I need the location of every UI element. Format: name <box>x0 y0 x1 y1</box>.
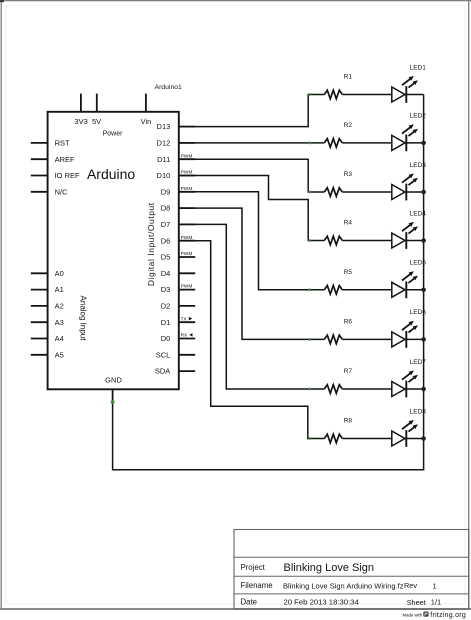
svg-text:R1: R1 <box>344 74 353 81</box>
LED5 <box>392 271 424 298</box>
svg-text:1: 1 <box>433 581 437 590</box>
LED3 <box>392 173 424 200</box>
svg-text:Power: Power <box>103 131 124 138</box>
pin D4 <box>179 272 195 274</box>
wire R8 to LED8 <box>342 438 392 440</box>
wire D7 to R7 <box>179 224 324 389</box>
svg-text:D4: D4 <box>161 269 171 278</box>
svg-text:A3: A3 <box>55 318 64 327</box>
wire R4 to LED4 <box>342 240 392 242</box>
node R6 wire end <box>308 338 311 341</box>
resistor R2 <box>324 139 342 148</box>
page frame border bottom <box>0 608 471 610</box>
node GND wire junction <box>111 400 115 404</box>
svg-text:Blinking Love Sign: Blinking Love Sign <box>284 562 375 574</box>
svg-text:R3: R3 <box>344 171 353 178</box>
svg-text:Date: Date <box>241 597 257 606</box>
svg-text:R2: R2 <box>344 122 353 129</box>
pin D10 PWM <box>179 175 195 177</box>
pin 5V <box>96 94 98 112</box>
svg-text:Analog Input: Analog Input <box>79 296 88 342</box>
LED7 <box>392 370 424 397</box>
resistor R5 <box>324 286 342 295</box>
node R1 wire end <box>308 93 311 96</box>
svg-text:RX: RX <box>181 333 188 339</box>
wire R6 to LED6 <box>342 338 392 340</box>
pin A0 <box>31 272 48 274</box>
svg-text:Blinking Love Sign Arduino Wir: Blinking Love Sign Arduino Wiring.fz <box>283 581 404 590</box>
junction LED7 cathode on bus <box>421 387 426 392</box>
top frame edge dark mark <box>0 0 4 2</box>
pin D12 <box>179 142 195 144</box>
svg-text:Digital Input/Output: Digital Input/Output <box>146 202 156 286</box>
svg-text:1/1: 1/1 <box>431 598 441 607</box>
svg-text:D5: D5 <box>161 253 171 262</box>
node R2 wire end <box>308 141 311 144</box>
svg-text:D0: D0 <box>161 334 171 343</box>
wire D8 to R6 <box>179 208 324 339</box>
pin D2 <box>179 305 195 307</box>
junction LED4 cathode on bus <box>421 238 426 243</box>
svg-text:R7: R7 <box>344 368 353 375</box>
wire R1 to LED1 <box>342 94 392 96</box>
svg-text:A4: A4 <box>55 334 64 343</box>
svg-text:LED8: LED8 <box>410 408 427 415</box>
svg-text:D11: D11 <box>157 155 170 164</box>
svg-text:PWM: PWM <box>181 153 193 159</box>
svg-text:LED7: LED7 <box>410 359 427 366</box>
svg-text:LED2: LED2 <box>410 113 427 120</box>
svg-text:PWM: PWM <box>181 251 193 257</box>
svg-text:D10: D10 <box>157 171 171 180</box>
wire R5 to LED5 <box>342 289 392 291</box>
pin A3 <box>31 321 48 323</box>
pin D7 <box>179 223 195 225</box>
svg-text:A2: A2 <box>55 302 64 311</box>
node R5 wire end <box>308 288 311 291</box>
svg-text:AREF: AREF <box>55 155 75 164</box>
pin A4 <box>31 338 48 340</box>
svg-text:LED3: LED3 <box>410 162 427 169</box>
pin SDA <box>179 370 195 372</box>
resistor R7 <box>324 385 342 394</box>
svg-text:D1: D1 <box>161 318 171 327</box>
svg-text:N/C: N/C <box>55 187 69 196</box>
node R8 wire end <box>308 437 311 440</box>
svg-text:IO REF: IO REF <box>55 171 80 180</box>
svg-text:PWM: PWM <box>181 186 193 192</box>
wire D12 to R2 <box>179 142 324 144</box>
page frame border left <box>0 0 2 610</box>
pin GND bottom <box>112 389 114 402</box>
svg-text:Vin: Vin <box>141 117 152 126</box>
resistor R4 <box>324 236 342 245</box>
pin A2 <box>31 305 48 307</box>
svg-text:D2: D2 <box>161 302 171 311</box>
resistor R3 <box>324 188 342 197</box>
pin D13 <box>179 126 195 128</box>
svg-text:D9: D9 <box>161 187 171 196</box>
title block frame <box>234 530 469 610</box>
svg-text:Filename: Filename <box>241 581 273 590</box>
node R3 wire end <box>308 191 311 194</box>
junction LED8 cathode on bus <box>421 436 426 441</box>
svg-text:A5: A5 <box>55 350 64 359</box>
svg-text:Arduino1: Arduino1 <box>155 84 182 91</box>
svg-text:fritzing.org: fritzing.org <box>430 612 466 619</box>
pin SCL <box>179 354 195 356</box>
svg-text:Made with: Made with <box>403 612 423 617</box>
svg-text:R4: R4 <box>344 220 353 227</box>
svg-text:SDA: SDA <box>155 367 170 376</box>
pin D3 PWM <box>179 289 195 291</box>
wire R2 to LED2 <box>342 142 392 144</box>
svg-text:R8: R8 <box>344 418 353 425</box>
LED8 <box>392 420 424 447</box>
wire R7 to LED7 <box>342 388 392 390</box>
Arduino U1 body <box>48 112 179 390</box>
pin A1 <box>31 289 48 291</box>
svg-text:20 Feb 2013 18:30:34: 20 Feb 2013 18:30:34 <box>284 598 360 607</box>
pin D1 TX <box>179 321 195 323</box>
svg-text:Sheet: Sheet <box>407 598 426 607</box>
wire D11 to R3 <box>179 159 324 192</box>
svg-text:3V3: 3V3 <box>74 117 87 126</box>
svg-text:A0: A0 <box>55 269 64 278</box>
svg-text:Rev: Rev <box>404 581 417 590</box>
svg-text:TX: TX <box>181 316 188 322</box>
svg-text:LED4: LED4 <box>410 210 427 217</box>
junction LED5 cathode on bus <box>421 288 426 293</box>
pin Vin <box>145 94 147 112</box>
node R7 wire end <box>308 388 311 391</box>
LED2 <box>392 124 424 151</box>
right pins D13..SDA <box>155 122 195 376</box>
pin RST <box>31 142 48 144</box>
pin IO REF <box>31 175 48 177</box>
svg-text:D13: D13 <box>157 122 171 131</box>
svg-text:SCL: SCL <box>156 350 171 359</box>
wire D10 to R4 <box>179 176 324 241</box>
svg-text:R5: R5 <box>344 269 353 276</box>
junction LED6 cathode on bus <box>421 337 426 342</box>
svg-text:D6: D6 <box>161 236 171 245</box>
pin A5 <box>31 354 48 356</box>
left pins group: RST AREF IOREF NC A0-A5 <box>31 139 80 360</box>
pin D9 PWM <box>179 191 195 193</box>
resistor R6 <box>324 335 342 344</box>
wire R3 to LED3 <box>342 191 392 193</box>
svg-text:PWM: PWM <box>181 170 193 176</box>
svg-text:D7: D7 <box>161 220 171 229</box>
LED4 <box>392 222 424 249</box>
wire D9 to R5 <box>179 192 324 290</box>
svg-text:PWM: PWM <box>181 235 193 241</box>
LED1 <box>392 76 424 103</box>
pin D0 RX <box>179 338 195 340</box>
svg-text:D3: D3 <box>161 285 171 294</box>
pin N/C <box>31 191 48 193</box>
svg-text:LED6: LED6 <box>410 309 427 316</box>
pin D6 PWM <box>179 240 195 242</box>
svg-text:Project: Project <box>241 563 266 572</box>
page frame border top <box>0 0 471 2</box>
LED6 <box>392 321 424 348</box>
wire GND to cathode bus <box>113 95 424 470</box>
pin 3V3 <box>80 94 82 112</box>
svg-text:5V: 5V <box>92 117 101 126</box>
svg-text:LED5: LED5 <box>410 260 427 267</box>
resistor R1 <box>324 90 342 99</box>
wire D6 to R8 <box>179 241 324 439</box>
svg-text:GND: GND <box>105 375 122 384</box>
svg-text:A1: A1 <box>55 285 64 294</box>
pin AREF <box>31 158 48 160</box>
svg-text:PWM: PWM <box>181 284 193 290</box>
pin D11 PWM <box>179 158 195 160</box>
resistor R8 <box>324 434 342 443</box>
svg-text:LED1: LED1 <box>410 64 427 71</box>
wire D13 to R1 <box>179 95 324 127</box>
page frame border right <box>468 0 470 610</box>
svg-text:D12: D12 <box>157 139 171 148</box>
node R4 wire end <box>308 239 311 242</box>
svg-text:D8: D8 <box>161 204 171 213</box>
junction LED3 cathode on bus <box>421 190 426 195</box>
svg-text:R6: R6 <box>344 318 353 325</box>
svg-text:Arduino: Arduino <box>87 166 135 182</box>
svg-text:RST: RST <box>55 139 70 148</box>
pin D8 <box>179 207 195 209</box>
junction LED2 cathode on bus <box>421 141 426 146</box>
pin D5 PWM <box>179 256 195 258</box>
